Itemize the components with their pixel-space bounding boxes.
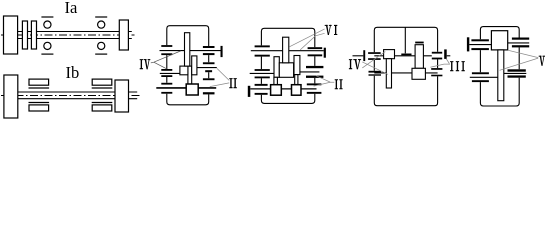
bearing bars right wall fig2 [203, 46, 215, 94]
label Ib [66, 65, 80, 82]
label Ia [65, 0, 78, 16]
shaft 3 fig2 [160, 72, 180, 74]
gear E square fig2 [186, 84, 198, 95]
shaft 1 fig5 left segment [469, 44, 491, 46]
shaft 1 fig2 [160, 50, 221, 52]
label IV fig4 [349, 59, 361, 69]
neck 2 fig3 [295, 75, 298, 85]
leader lines II fig2 [210, 68, 229, 86]
shaft 4 fig3 [250, 88, 316, 90]
shaft 2 fig4 [374, 72, 437, 74]
big gear rect fig5 [491, 31, 507, 50]
label II fig2 [229, 78, 237, 88]
shaft 2 fig3 [300, 71, 320, 73]
coupling T-bar shaft1 right fig3 [324, 48, 326, 58]
bearing bars left wall fig3 [255, 45, 270, 94]
bearing bars left wall fig2 [161, 45, 172, 94]
vertical narrow rect fig5 [498, 50, 504, 101]
gear square SQ2 fig3 [292, 85, 302, 96]
bearing bars shaft1 left wall fig5 [471, 39, 489, 50]
shaft body Ia [18, 32, 120, 39]
bearing S1 (sliding block, bottom) [29, 102, 50, 104]
gear B'' fig3 [294, 56, 300, 75]
coupling T-bar shaft1 right [221, 46, 223, 57]
shaft 2 fig2 [197, 67, 217, 69]
bearing B2 (circle symbol, top) [95, 16, 107, 18]
neck 1 fig3 [274, 77, 278, 84]
coupling T-bar output fig4 [444, 49, 447, 59]
shaft 2 right fig5 [504, 72, 527, 74]
gear C fig4 [412, 68, 425, 79]
gear W wide fig3 [279, 63, 293, 78]
bearing B2 (circle symbol, bottom) [98, 42, 105, 49]
coupling T-bar shaft4 left fig3 [248, 86, 251, 97]
label II fig3 [335, 79, 343, 89]
gear disc 1 [22, 21, 27, 49]
output shaft stub fig4 [447, 55, 451, 57]
gear A tall fig2 [185, 33, 190, 66]
shaft stub right [129, 92, 138, 99]
housing fig5 [480, 27, 519, 106]
input shaft stub fig4 [353, 55, 364, 57]
coupling hub (left big rect) [4, 16, 18, 54]
bearing bars shaft1 right wall fig5 [512, 38, 529, 48]
gear B fig2 [192, 56, 197, 75]
hanging bearing bar fig4 [401, 54, 411, 56]
bearing bars shaft1 left wall fig4 [368, 52, 381, 60]
bearing B1 (circle symbol, bottom) [44, 42, 51, 49]
bearing S2 (sliding block, bottom) [92, 102, 113, 104]
bearing bars shaft2 right wall fig4 [431, 68, 442, 76]
neck below pinion fig4 [386, 59, 391, 88]
bar over gear B fig4 [415, 42, 424, 44]
gear A'' tall fig3 [283, 37, 289, 63]
leader lines IV fig4 [362, 52, 388, 75]
bearing bars right wall fig3 [306, 47, 323, 94]
bearing S2 (sliding block, top) [92, 79, 112, 85]
leader lines IV fig2 [151, 51, 181, 69]
centerline shaft Ib [1, 95, 141, 97]
label IV fig2 [140, 59, 151, 69]
leader lines II fig3 [314, 76, 335, 86]
centerline shaft Ia [1, 34, 135, 36]
shaft 3 fig3 [250, 72, 274, 74]
shaft 1 fig4 [374, 55, 432, 57]
label VI fig3 [325, 25, 338, 35]
gear A pinion fig4 [384, 50, 395, 59]
shaft 1 fig3 [251, 50, 324, 52]
bearing bars shaft2 left wall fig5 [472, 72, 489, 82]
shaft 1 fig5 right segment [508, 42, 530, 44]
coupling T-bar input fig5 [467, 37, 469, 51]
coupling half (right rect) [115, 80, 129, 112]
shaft body Ib [18, 92, 115, 99]
bearing B1 (circle symbol, top) [41, 16, 53, 18]
label V fig5 [539, 56, 545, 66]
bearing S1 (sliding block, top) [29, 79, 49, 85]
shaft stub right [128, 32, 131, 39]
bearing bars shaft2 left wall fig4 [369, 71, 382, 76]
coupling hub (left big rect) [4, 75, 18, 118]
gear neck D fig2 [188, 66, 192, 84]
leader lines V fig5 [500, 50, 539, 70]
coupling half (right rect) [119, 20, 128, 50]
leader lines III fig4 [430, 59, 450, 67]
bearing bars shaft1 right wall fig4 [432, 52, 442, 60]
gear disc 2 [31, 21, 36, 49]
shaft 4 fig2 [156, 87, 216, 89]
housing fig3 [261, 28, 314, 103]
label III fig4 [450, 61, 465, 71]
gear C'' fig3 [274, 57, 279, 78]
gear square SQ1 fig3 [271, 85, 282, 96]
bearing bars shaft2 right wall fig5 [508, 69, 526, 77]
housing fig4 [374, 27, 437, 105]
coupling T-bar input fig4 [363, 50, 365, 61]
housing fig2 [167, 26, 209, 105]
gear B tall fig4 [415, 45, 423, 69]
shaft 2 left fig5 [470, 76, 498, 78]
leader lines VI fig3 [289, 29, 324, 50]
hanging bearing line fig4 [404, 27, 406, 53]
gear C fig2 [180, 66, 188, 75]
